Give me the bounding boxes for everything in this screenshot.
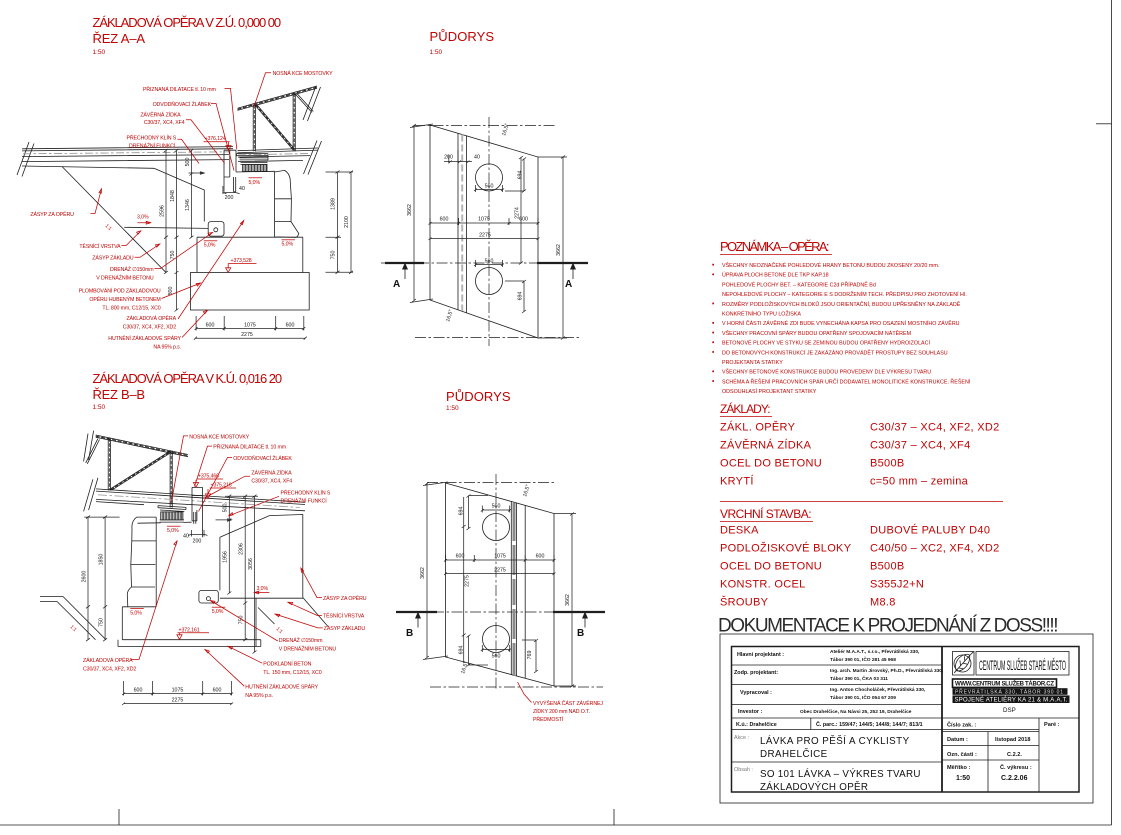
dimension ticks right bbox=[336, 171, 354, 274]
fold mark bottom left bbox=[118, 809, 120, 825]
label PLOMBOVANI bbox=[79, 283, 201, 312]
dim 600 1075 600 bbox=[429, 217, 540, 226]
logo black bar 3 spojene ateliery bbox=[953, 695, 1070, 703]
dim 694 bottom right bbox=[505, 280, 526, 313]
slope label 5,0% left B bbox=[130, 609, 144, 617]
section cut line B-B bbox=[396, 612, 605, 640]
centerline bottom bbox=[415, 337, 580, 339]
drainage box bbox=[208, 222, 224, 237]
logo leaf icon bbox=[954, 651, 974, 673]
deck centerline grey bbox=[98, 495, 300, 508]
deck lines bbox=[22, 147, 233, 169]
deck band bbox=[96, 489, 305, 511]
svg-text:DO BETONOVÝCH KONSTRUKCÍ JE ZA: DO BETONOVÝCH KONSTRUKCÍ JE ZAKÁZÁNO PRO… bbox=[722, 348, 948, 356]
svg-text:PROJEKTANTA STATIKY: PROJEKTANTA STATIKY bbox=[722, 360, 783, 366]
svg-text:ZÁVĚRNÁ ZÍDKA: ZÁVĚRNÁ ZÍDKA bbox=[140, 111, 181, 119]
svg-text:1389: 1389 bbox=[331, 198, 337, 210]
svg-text:Paré :: Paré : bbox=[1044, 722, 1060, 728]
svg-text:ZÁVĚRNÁ ZÍDKA: ZÁVĚRNÁ ZÍDKA bbox=[251, 469, 292, 477]
svg-text:TĚSNÍCÍ VRSTVA: TĚSNÍCÍ VRSTVA bbox=[79, 242, 121, 250]
svg-text:DUBOVÉ PALUBY D40: DUBOVÉ PALUBY D40 bbox=[870, 524, 990, 537]
svg-text:A: A bbox=[393, 279, 400, 290]
svg-text:2600: 2600 bbox=[82, 571, 88, 583]
dim 2275 bbox=[429, 233, 540, 241]
bottom dim line 2 B bbox=[122, 703, 233, 706]
svg-text:ŘEZ B–B: ŘEZ B–B bbox=[93, 387, 146, 402]
svg-text:1:1: 1:1 bbox=[69, 624, 78, 633]
level mark +375,466 bbox=[193, 474, 223, 488]
level mark +375,216 bbox=[205, 483, 236, 499]
svg-text:BETONOVÉ PLOCHY VE STYKU SE ZE: BETONOVÉ PLOCHY VE STYKU SE ZEMINOU BUDO… bbox=[722, 339, 930, 347]
deck break marks left bbox=[17, 142, 34, 177]
svg-text:A: A bbox=[565, 279, 572, 290]
svg-text:3662: 3662 bbox=[565, 594, 571, 606]
label TESNICI VRSTVA bbox=[79, 231, 140, 250]
svg-text:1:50: 1:50 bbox=[446, 405, 459, 412]
svg-text:Akce :: Akce : bbox=[734, 735, 749, 741]
svg-text:560: 560 bbox=[485, 259, 494, 265]
centerline vertical bbox=[495, 474, 497, 691]
label TESNICI VRSTVA B bbox=[288, 602, 365, 619]
truss post 2 bbox=[170, 451, 172, 508]
foundation block bbox=[191, 273, 310, 311]
fold mark right edge bbox=[1096, 123, 1112, 125]
svg-text:C40/50 – XC2, XF4, XD2: C40/50 – XC2, XF4, XD2 bbox=[870, 543, 1000, 555]
dim 560 lower circle bbox=[481, 645, 511, 660]
svg-text:HUTNĚNÍ ZÁKLADOVÉ SPÁRY: HUTNĚNÍ ZÁKLADOVÉ SPÁRY bbox=[108, 334, 181, 342]
svg-text:750: 750 bbox=[99, 618, 105, 627]
svg-text:40: 40 bbox=[474, 155, 480, 161]
truss diagonal bbox=[110, 451, 171, 490]
svg-text:2275: 2275 bbox=[479, 233, 491, 239]
title plan B bbox=[446, 389, 511, 412]
svg-text:HUTNĚNÍ ZÁKLADOVÉ SPÁRY: HUTNĚNÍ ZÁKLADOVÉ SPÁRY bbox=[245, 683, 318, 691]
title block outer thin box bbox=[720, 634, 1093, 803]
svg-text:Měřítko :: Měřítko : bbox=[947, 765, 970, 771]
svg-text:Ozn. části :: Ozn. části : bbox=[947, 752, 977, 758]
svg-text:694: 694 bbox=[518, 292, 524, 301]
label ZAKLADOVA OPERA bbox=[123, 221, 244, 331]
svg-text:OCEL DO BETONU: OCEL DO BETONU bbox=[720, 458, 822, 470]
svg-text:Zodp. projektant:: Zodp. projektant: bbox=[734, 670, 778, 676]
svg-text:16,5°: 16,5° bbox=[460, 661, 469, 675]
svg-text:Tábor 390 01, ČKA 03 311: Tábor 390 01, ČKA 03 311 bbox=[830, 675, 888, 682]
svg-text:3056: 3056 bbox=[248, 558, 254, 570]
svg-text:600: 600 bbox=[134, 688, 143, 694]
svg-text:OPĚRU HUBENÝM BETONEM: OPĚRU HUBENÝM BETONEM bbox=[89, 295, 160, 303]
svg-text:DRENÁŽ ∅150mm: DRENÁŽ ∅150mm bbox=[279, 636, 323, 644]
ground line behind abutment B bbox=[220, 597, 303, 599]
svg-text:C30/37 – XC4, XF4: C30/37 – XC4, XF4 bbox=[870, 440, 971, 452]
svg-text:600: 600 bbox=[206, 323, 215, 329]
svg-text:C30/37 – XC4, XF2, XD2: C30/37 – XC4, XF2, XD2 bbox=[870, 422, 1000, 434]
drainage box B bbox=[199, 590, 218, 603]
svg-text:OCEL DO BETONU: OCEL DO BETONU bbox=[720, 561, 822, 573]
svg-text:C.2.2.: C.2.2. bbox=[1007, 752, 1022, 758]
label ZASYP ZAKLADU B bbox=[275, 614, 365, 632]
svg-text:1:50: 1:50 bbox=[430, 49, 443, 56]
seat dim arrow bbox=[189, 172, 205, 174]
svg-text:200: 200 bbox=[193, 539, 202, 545]
label 3,0% with arrow bbox=[137, 215, 151, 225]
svg-text:DESKA: DESKA bbox=[720, 525, 759, 537]
svg-text:KONSTR. OCEL: KONSTR. OCEL bbox=[720, 579, 806, 591]
svg-text:NA 95% p.s.: NA 95% p.s. bbox=[153, 345, 181, 351]
svg-text:SCHÉMA A ŘEŠENÍ PRACOVNÍCH SPÁ: SCHÉMA A ŘEŠENÍ PRACOVNÍCH SPÁR URČÍ DOD… bbox=[722, 377, 971, 385]
svg-text:ZÁSYP ZÁKLADU: ZÁSYP ZÁKLADU bbox=[324, 625, 366, 632]
svg-text:c=50 mm – zemina: c=50 mm – zemina bbox=[870, 476, 969, 488]
label HUTNENI B bbox=[205, 650, 319, 700]
level mark +373,528 bbox=[226, 258, 257, 272]
svg-text:TL. 800 mm, C12/15, XC0: TL. 800 mm, C12/15, XC0 bbox=[102, 306, 160, 312]
svg-text:3662: 3662 bbox=[556, 244, 562, 256]
svg-text:Tábor 390 01, IČO 054 67 209: Tábor 390 01, IČO 054 67 209 bbox=[830, 694, 896, 701]
label DRENAZ B bbox=[211, 601, 337, 653]
slope label 5,0% right bbox=[282, 240, 296, 248]
logo black bar 2 address bbox=[953, 688, 1068, 695]
svg-text:POHLEDOVÉ PLOCHY BET. – KATEGO: POHLEDOVÉ PLOCHY BET. – KATEGORIE C2d PŘ… bbox=[722, 280, 876, 288]
dimension verticals left bbox=[166, 151, 191, 311]
title block left column values bbox=[800, 649, 944, 715]
deck break marks lower right bbox=[304, 141, 322, 175]
svg-text:560: 560 bbox=[492, 504, 501, 510]
svg-text:ZÍDKY 200 mm NAD O.T.: ZÍDKY 200 mm NAD O.T. bbox=[533, 708, 590, 715]
svg-text:16,5°: 16,5° bbox=[501, 123, 510, 137]
table VRCHNI STAVBA rows bbox=[720, 524, 1000, 609]
dim 200 at seat B bbox=[188, 530, 208, 537]
title block left column labels bbox=[734, 652, 784, 715]
wall grey band bbox=[461, 135, 463, 312]
svg-text:Investor :: Investor : bbox=[738, 709, 762, 715]
svg-text:NOSNÁ KCE MOSTOVKY: NOSNÁ KCE MOSTOVKY bbox=[273, 70, 333, 77]
svg-text:ROZMĚRY PODLOŽISKOVÝCH BLOKŮ J: ROZMĚRY PODLOŽISKOVÝCH BLOKŮ JSOU ORIENT… bbox=[722, 300, 961, 308]
svg-text:B: B bbox=[406, 628, 413, 639]
svg-text:1:50: 1:50 bbox=[93, 49, 106, 56]
svg-text:TĚSNÍCÍ VRSTVA: TĚSNÍCÍ VRSTVA bbox=[323, 612, 365, 620]
svg-text:ZÁSYP ZÁKLADU: ZÁSYP ZÁKLADU bbox=[92, 255, 134, 262]
svg-text:40: 40 bbox=[239, 186, 245, 192]
K.u. row bbox=[736, 721, 923, 728]
svg-text:VYVÝŠENÁ ČÁST ZÁVĚRNEJ: VYVÝŠENÁ ČÁST ZÁVĚRNEJ bbox=[533, 699, 603, 707]
front embankment slope left B bbox=[40, 597, 106, 640]
svg-text:listopad 2018: listopad 2018 bbox=[995, 737, 1030, 743]
svg-text:ZÁKLADY:: ZÁKLADY: bbox=[720, 401, 771, 416]
label PRIZNANA DILATACE bbox=[143, 85, 237, 150]
label 3,0% with arrow B bbox=[254, 586, 269, 594]
svg-text:694: 694 bbox=[518, 171, 524, 180]
svg-text:ODVODŇOVACÍ ŽLÁBEK: ODVODŇOVACÍ ŽLÁBEK bbox=[233, 454, 292, 462]
title section B-B bbox=[93, 371, 283, 411]
label PRIZNANA DILATACE B bbox=[195, 443, 287, 487]
dim ticks left B bbox=[86, 516, 107, 642]
svg-text:40: 40 bbox=[183, 534, 189, 540]
bearing circle top bbox=[476, 164, 503, 191]
svg-text:5,0%: 5,0% bbox=[204, 243, 216, 249]
svg-text:2596: 2596 bbox=[160, 205, 166, 217]
title section A-A bbox=[93, 15, 282, 56]
svg-text:2274: 2274 bbox=[515, 207, 521, 219]
notes heading POZNAMKA - OPERA bbox=[720, 239, 832, 255]
svg-text:S355J2+N: S355J2+N bbox=[870, 579, 924, 591]
svg-text:2275: 2275 bbox=[241, 332, 253, 338]
svg-text:ZÁKLADOVÁ OPĚRA: ZÁKLADOVÁ OPĚRA bbox=[126, 314, 176, 322]
centerline bottom bbox=[430, 686, 603, 688]
svg-text:200: 200 bbox=[225, 195, 234, 201]
label HUTNENI bbox=[108, 310, 207, 350]
svg-text:500: 500 bbox=[223, 504, 229, 513]
wall grey band bbox=[513, 503, 516, 676]
svg-text:+373,528: +373,528 bbox=[231, 258, 252, 264]
truss post 1 bbox=[108, 438, 110, 491]
title block inner thick box bbox=[732, 647, 1080, 793]
notes bullet list bbox=[712, 262, 971, 395]
svg-text:C.2.2.06: C.2.2.06 bbox=[1001, 775, 1028, 782]
svg-text:3,0%: 3,0% bbox=[137, 215, 149, 221]
svg-text:WWW.CENTRUM SLUŽEB TÁBOR.CZ: WWW.CENTRUM SLUŽEB TÁBOR.CZ bbox=[955, 680, 1054, 688]
svg-text:600: 600 bbox=[440, 217, 449, 223]
svg-text:B500B: B500B bbox=[870, 561, 905, 573]
svg-text:1:50: 1:50 bbox=[93, 404, 106, 411]
label ZASYP ZA OPERU bbox=[30, 189, 101, 218]
svg-text:1075: 1075 bbox=[172, 688, 184, 694]
svg-text:ZÁKLADOVÁ OPĚRA V Z.Ú. 0,000 0: ZÁKLADOVÁ OPĚRA V Z.Ú. 0,000 00 bbox=[93, 15, 282, 30]
svg-text:Obec Drahelčice, Na Návsi 25,: Obec Drahelčice, Na Návsi 25, 252 19, Dr… bbox=[800, 709, 912, 715]
dim 600 1075 600 bbox=[444, 554, 556, 563]
svg-text:1:1: 1:1 bbox=[104, 223, 113, 232]
svg-text:ODSOUHLASÍ PROJEKTANT STATIKY: ODSOUHLASÍ PROJEKTANT STATIKY bbox=[722, 388, 817, 395]
fold mark bottom middle bbox=[613, 809, 615, 825]
drain pipe circle bbox=[214, 228, 218, 232]
svg-text:1346: 1346 bbox=[185, 199, 191, 211]
dim 769 right bbox=[522, 639, 538, 673]
transition wedge outline bbox=[124, 168, 208, 228]
stone steps left face B bbox=[127, 517, 156, 607]
svg-text:KONKRÉTNÍHO TYPU LOŽISKA: KONKRÉTNÍHO TYPU LOŽISKA bbox=[722, 310, 801, 318]
drainage slot 40mm B bbox=[194, 512, 196, 524]
deck break marks bottom left bbox=[84, 478, 98, 512]
svg-text:C30/37, XC4, XF2, XD2: C30/37, XC4, XF2, XD2 bbox=[83, 667, 136, 673]
dim 560 lower circle bbox=[474, 259, 504, 268]
svg-text:SPOJENÉ ATELIÉRY KA 21 & M.A.A: SPOJENÉ ATELIÉRY KA 21 & M.A.A.T. bbox=[955, 697, 1068, 704]
label DRENAZ bbox=[96, 233, 212, 282]
truss post 2 bbox=[293, 93, 295, 151]
dimension ticks left bbox=[164, 149, 193, 312]
svg-text:ZÁVĚRNÁ ZÍDKA: ZÁVĚRNÁ ZÍDKA bbox=[720, 439, 812, 452]
svg-text:Obsah :: Obsah : bbox=[734, 767, 753, 773]
truss post 1 bbox=[253, 105, 255, 152]
dim 694 top right bbox=[505, 158, 526, 193]
svg-text:2275: 2275 bbox=[172, 698, 184, 704]
dim 560 upper circle bbox=[474, 184, 504, 193]
zidka wall lines in plan bbox=[511, 502, 525, 679]
label ZAVERNA ZIDKA B bbox=[204, 469, 293, 499]
bearing plates bbox=[237, 154, 269, 165]
label ODVODNOVACI ZLABEK B bbox=[199, 454, 293, 512]
svg-text:1:50: 1:50 bbox=[956, 775, 970, 782]
svg-text:1075: 1075 bbox=[244, 323, 256, 329]
dim 3662 left bbox=[407, 124, 433, 303]
label PRECHODNY KLIN bbox=[126, 134, 199, 164]
abutment top surface bbox=[236, 170, 275, 173]
ledge and stem B bbox=[122, 598, 256, 640]
svg-text:5,0%: 5,0% bbox=[130, 610, 142, 616]
svg-text:600: 600 bbox=[456, 554, 465, 560]
level mark +372,161 bbox=[177, 627, 209, 639]
abutment plan outline bbox=[430, 125, 538, 338]
zaverna zidka wall bbox=[224, 150, 236, 192]
svg-text:PLOMBOVÁNÍ POD ZÁKLADOVOU: PLOMBOVÁNÍ POD ZÁKLADOVOU bbox=[79, 288, 161, 295]
svg-text:VŠECHNY BETONOVÉ KONSTRUKCE BU: VŠECHNY BETONOVÉ KONSTRUKCE BUDOU PROVED… bbox=[722, 369, 931, 376]
svg-text:PŘIZNANÁ DILATACE tl. 10 mm: PŘIZNANÁ DILATACE tl. 10 mm bbox=[143, 85, 216, 93]
level mark +376,124 bbox=[204, 136, 232, 150]
svg-text:+372,161: +372,161 bbox=[179, 627, 200, 633]
slope label 5,0% right B bbox=[212, 607, 226, 615]
svg-text:2275: 2275 bbox=[464, 575, 470, 587]
svg-text:Datum :: Datum : bbox=[947, 737, 968, 743]
svg-text:VŠECHNY NEOZNAČENÉ POHLEDOVÉ H: VŠECHNY NEOZNAČENÉ POHLEDOVÉ HRANY BETON… bbox=[722, 262, 939, 269]
svg-text:C30/37, XC4, XF4: C30/37, XC4, XF4 bbox=[144, 120, 185, 126]
svg-text:ÚPRAVA PLOCH BETONE DLE TKP KA: ÚPRAVA PLOCH BETONE DLE TKP KAP.18 bbox=[722, 272, 829, 279]
title plan A bbox=[430, 29, 495, 56]
dim 3662 right bbox=[538, 156, 567, 340]
svg-text:500: 500 bbox=[185, 158, 191, 167]
svg-text:1848: 1848 bbox=[170, 190, 176, 202]
label NOSNA KCE MOSTOVKY bbox=[254, 70, 333, 107]
bearing circle bottom bbox=[476, 268, 503, 295]
bearing plates bbox=[158, 506, 186, 512]
svg-text:694: 694 bbox=[458, 646, 464, 655]
svg-text:Vypracoval :: Vypracoval : bbox=[740, 690, 772, 696]
table VRCHNI STAVBA heading bbox=[720, 506, 813, 522]
slope label 5,0% at bearing B bbox=[167, 526, 181, 534]
dim ticks center B bbox=[227, 495, 256, 654]
svg-text:DRENÁŽNÍ FUNKCÍ: DRENÁŽNÍ FUNKCÍ bbox=[281, 497, 328, 505]
abutment stem bbox=[197, 237, 303, 272]
backfill wedge B bbox=[220, 515, 303, 598]
svg-text:DRENÁŽNÍ FUNKCÍ: DRENÁŽNÍ FUNKCÍ bbox=[129, 142, 176, 150]
svg-text:PŘEDMOSTÍ: PŘEDMOSTÍ bbox=[533, 715, 564, 723]
svg-text:3662: 3662 bbox=[407, 204, 413, 216]
section cut line A-A bbox=[381, 263, 588, 291]
svg-text:DRENÁŽ ∅150mm: DRENÁŽ ∅150mm bbox=[110, 265, 154, 273]
centerline vertical bbox=[488, 117, 490, 346]
table ZAKLADY heading bbox=[720, 401, 772, 417]
svg-text:560: 560 bbox=[485, 184, 494, 190]
bottom chord and deck right bbox=[238, 148, 319, 162]
separator line bbox=[720, 501, 1003, 503]
svg-text:NA 95% p.s.: NA 95% p.s. bbox=[245, 693, 273, 699]
svg-text:Č. výkresu :: Č. výkresu : bbox=[1000, 764, 1032, 771]
svg-text:DSP: DSP bbox=[1003, 707, 1016, 714]
bottom dim line 1 B bbox=[122, 681, 233, 696]
svg-text:1075: 1075 bbox=[478, 217, 490, 223]
svg-text:V HORNÍ ČÁSTI ZÁVĚRNÉ ZDI BUDE: V HORNÍ ČÁSTI ZÁVĚRNÉ ZDI BUDE VYNECHÁNA… bbox=[722, 319, 960, 327]
centerline top bbox=[414, 125, 557, 127]
dim 694 top bbox=[458, 495, 488, 531]
svg-text:16,5°: 16,5° bbox=[445, 309, 454, 323]
svg-text:CENTRUM SLUŽEB STARÉ MĚSTO: CENTRUM SLUŽEB STARÉ MĚSTO bbox=[979, 658, 1066, 673]
svg-text:200: 200 bbox=[444, 155, 453, 161]
svg-text:16,5°: 16,5° bbox=[522, 484, 531, 498]
svg-text:PŮDORYS: PŮDORYS bbox=[446, 389, 511, 404]
truss diagonal bbox=[255, 105, 294, 150]
dim 3662 left bbox=[420, 482, 448, 660]
dim 200 at seat bbox=[223, 186, 240, 194]
svg-text:769: 769 bbox=[527, 651, 533, 660]
label ZAVERNA ZIDKA bbox=[140, 111, 224, 164]
podkladni beton layer B bbox=[118, 640, 261, 647]
svg-text:3662: 3662 bbox=[420, 567, 426, 579]
svg-text:ZÁSYP ZA OPĚRU: ZÁSYP ZA OPĚRU bbox=[30, 210, 74, 218]
svg-text:ZÁKLADOVÁ OPĚRA: ZÁKLADOVÁ OPĚRA bbox=[83, 656, 133, 664]
svg-text:K.ú.: Drahelčice: K.ú.: Drahelčice bbox=[736, 722, 777, 728]
dim 560 upper circle bbox=[481, 504, 511, 513]
dim 200 40 top bbox=[444, 150, 480, 164]
embankment slope 1:1 bbox=[62, 167, 166, 273]
svg-text:5,0%: 5,0% bbox=[282, 242, 294, 248]
svg-text:750: 750 bbox=[331, 251, 337, 260]
svg-text:PŘECHODNÝ KLÍN S: PŘECHODNÝ KLÍN S bbox=[126, 134, 176, 142]
label ZAKLADOVA OPERA B bbox=[83, 541, 177, 673]
dimension verticals right bbox=[326, 172, 354, 272]
zidka wall lines in plan bbox=[458, 133, 467, 313]
svg-text:M8.8: M8.8 bbox=[870, 597, 896, 609]
zaverna zidka wall B bbox=[192, 487, 203, 537]
svg-text:PODKLADNÍ BETON: PODKLADNÍ BETON bbox=[263, 661, 311, 668]
svg-text:Ing. Anton Chocholáček, Převrá: Ing. Anton Chocholáček, Převrátilská 330… bbox=[830, 687, 926, 693]
svg-text:KRYTÍ: KRYTÍ bbox=[720, 475, 754, 488]
drainage slot 40mm bbox=[234, 177, 236, 192]
svg-text:PŘIZNANÁ DILATACE tl. 10 mm: PŘIZNANÁ DILATACE tl. 10 mm bbox=[213, 443, 286, 451]
svg-text:Tábor 390 01, IČO 281 45 968: Tábor 390 01, IČO 281 45 968 bbox=[830, 656, 896, 663]
svg-text:2306: 2306 bbox=[238, 543, 244, 555]
dim 2275 vertical bbox=[462, 497, 471, 663]
svg-text:ZÁSYP ZA OPĚRU: ZÁSYP ZA OPĚRU bbox=[323, 594, 367, 602]
slope label 5,0% left bbox=[204, 241, 218, 249]
truss break marks top left bbox=[84, 431, 94, 462]
svg-text:SO 101 LÁVKA – VÝKRES TVARU: SO 101 LÁVKA – VÝKRES TVARU bbox=[760, 769, 921, 780]
svg-text:LÁVKA PRO PĚŠÍ A CYKLISTY: LÁVKA PRO PĚŠÍ A CYKLISTY bbox=[760, 736, 910, 747]
svg-text:PŘECHODNÝ KLÍN S: PŘECHODNÝ KLÍN S bbox=[281, 489, 331, 497]
svg-text:600: 600 bbox=[536, 554, 545, 560]
abutment plan outline bbox=[446, 483, 555, 686]
svg-text:600: 600 bbox=[286, 323, 295, 329]
svg-text:ŠROUBY: ŠROUBY bbox=[720, 596, 769, 609]
svg-text:ODVODŇOVACÍ ŽLÁBEK: ODVODŇOVACÍ ŽLÁBEK bbox=[153, 100, 212, 108]
bearing circle bottom bbox=[483, 626, 510, 653]
svg-text:V DRENÁŽNÍM BETONU: V DRENÁŽNÍM BETONU bbox=[96, 273, 154, 281]
truss top chord bbox=[96, 435, 188, 457]
table ZAKLADY rows bbox=[720, 421, 1000, 488]
svg-text:Hlavní projektant :: Hlavní projektant : bbox=[737, 652, 784, 658]
stone steps right face bbox=[275, 170, 299, 237]
label ZASYP ZAKLADU bbox=[92, 244, 160, 262]
label PODKLADNI BETON bbox=[228, 646, 322, 676]
slope label 5,0% at bearing bbox=[249, 178, 263, 186]
svg-text:VŠECHNY PRACOVNÍ SPÁRY BUDOU O: VŠECHNY PRACOVNÍ SPÁRY BUDOU OPATŘENY SP… bbox=[722, 329, 912, 337]
svg-text:600: 600 bbox=[213, 688, 222, 694]
svg-text:VRCHNÍ STAVBA:: VRCHNÍ STAVBA: bbox=[720, 506, 812, 521]
svg-text:ZÁKL. OPĚRY: ZÁKL. OPĚRY bbox=[720, 421, 796, 434]
dim verticals left B bbox=[84, 517, 119, 640]
drain pipe circle B bbox=[206, 597, 210, 601]
truss top chord bbox=[238, 86, 318, 110]
logo black bar 1 www bbox=[953, 679, 1057, 687]
right column small cells bbox=[947, 722, 1060, 772]
svg-text:PODLOŽISKOVÉ BLOKY: PODLOŽISKOVÉ BLOKY bbox=[720, 542, 852, 555]
bottom dim line 2 bbox=[194, 337, 307, 340]
bottom dim line 1 bbox=[195, 316, 306, 331]
